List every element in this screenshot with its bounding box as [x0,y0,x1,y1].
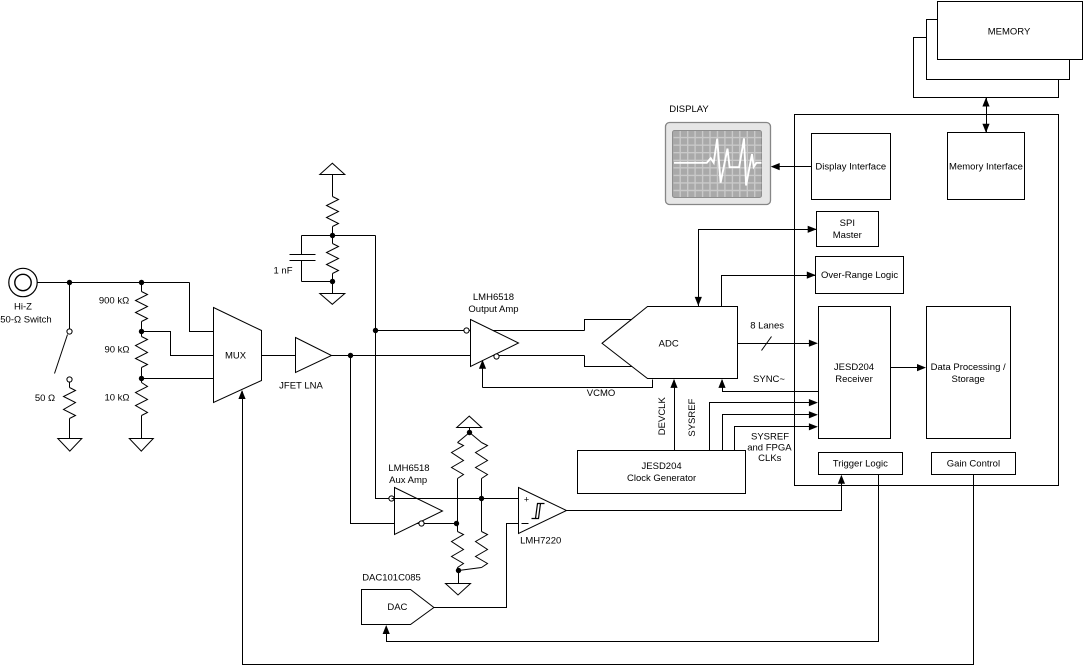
svg-text:LMH6518: LMH6518 [388,463,429,474]
supply arrow above bias resistor [320,163,345,196]
wire top diff line (net B to output amp input) [376,330,585,332]
svg-text:JFET LNA: JFET LNA [279,381,323,392]
label LMH6518 Aux Amp [388,463,429,486]
svg-text:Memory Interface: Memory Interface [949,161,1023,172]
node bias mid [330,233,335,238]
svg-text:LMH7220: LMH7220 [520,536,561,547]
svg-text:SYSREF: SYSREF [687,398,698,436]
block SPI Master [817,212,879,247]
wire DEVCLK/SYSREF to ADC [670,379,677,451]
label SYSREF [687,398,698,436]
wire comparator output to trigger logic [567,475,846,511]
svg-text:DISPLAY: DISPLAY [669,104,709,115]
switch SW1 bottom contact [67,377,72,382]
label Hi-Z 50-Ohm Switch [0,302,51,326]
label SYSREF and FPGA CLKs [747,431,792,464]
bus slash 8 Lanes [762,337,772,351]
wire 8 Lanes bus [738,340,818,347]
block Data Processing / Storage [927,307,1011,439]
svg-text:SPI: SPI [840,218,855,229]
mux MUX [214,308,262,403]
capacitor C1 1 nF [290,236,333,282]
block Trigger Logic [819,453,903,475]
svg-text:JESD204: JESD204 [834,362,874,373]
svg-text:DAC: DAC [387,602,407,613]
svg-text:MEMORY: MEMORY [988,27,1031,38]
svg-text:1 nF: 1 nF [273,265,292,276]
svg-text:Output Amp: Output Amp [468,304,518,315]
label 90 kOhm [104,344,129,355]
wire JFET output / bottom diff line [332,355,585,357]
resistor 900 kOhm [136,283,148,332]
wire FPGA clock 3 [735,423,818,450]
block MEMORY [938,2,1083,60]
wire memory to memory interface (bidirectional) [982,98,989,133]
switch SW1 blade [55,335,68,374]
supply arrow above threshold resistors [457,416,482,432]
svg-text:50-Ω Switch: 50-Ω Switch [0,315,51,326]
wire MUX output [262,355,296,357]
label DEVCLK [657,397,668,436]
comparator U3 LMH7220 [519,488,567,534]
label DAC101C085 [362,572,421,583]
resistor bias upper [327,197,339,236]
svg-text:SYSREF: SYSREF [751,431,789,442]
wire DAC output to comparator - [434,524,519,608]
wire vertical net A (JFET out down to aux amp in) [351,356,457,524]
wire trigger logic to DAC [383,475,879,642]
label LMH6518 Output Amp [468,292,518,315]
wire tap1 to MUX input 2 [142,332,214,356]
label 50 Ohm [35,393,55,404]
wire SPI to ADC [695,226,817,307]
wire diff bottom step [585,356,633,367]
block memory stack middle [927,20,1070,80]
wire FPGA clock 2 [723,411,818,450]
svg-text:JESD204: JESD204 [642,461,682,472]
display screen with waveform [666,123,771,205]
ground below 10 kOhm [129,439,153,452]
wire gain control to MUX [238,390,973,665]
label LMH7220 [520,536,561,547]
node net B tap to output amp [373,328,378,333]
svg-text:Gain Control: Gain Control [947,459,1000,470]
op-amp U1 LMH6518 Output Amp [471,320,519,367]
label JFET LNA [279,381,323,392]
node threshold bottom [456,568,461,584]
node threshold top [458,430,482,443]
label SYNC~ [753,374,785,385]
resistor 50 Ohm [64,382,76,439]
svg-text:and FPGA: and FPGA [747,443,792,454]
svg-text:DEVCLK: DEVCLK [657,397,668,436]
svg-text:Display Interface: Display Interface [815,161,886,172]
input connector J1 (Hi-Z / 50-ohm switch input) [9,268,37,296]
dac DAC101C085 [362,590,434,625]
pin output amp input bubble [464,328,469,333]
block Display Interface [812,134,891,200]
wire input rail [38,282,190,284]
resistor threshold upper-right [476,443,488,499]
wire aux amp to comparator + [392,498,519,500]
wire vertical net B (bias node down to aux amp +) [376,236,392,499]
label 10 kOhm [104,392,129,403]
label DISPLAY [669,104,709,115]
node threshold tap on lower line [454,521,459,526]
ground below bias network [320,294,345,305]
svg-text:CLKs: CLKs [758,453,781,464]
svg-text:Over-Range Logic: Over-Range Logic [821,270,898,281]
node bias bottom [330,279,335,284]
pin aux amp input bubble [389,496,394,501]
resistor threshold upper-left [452,443,464,524]
wire bias node [302,235,376,237]
svg-text:Hi-Z: Hi-Z [14,302,32,313]
node input junction B [139,280,144,285]
wire SYNC~ from receiver to ADC [718,379,818,392]
resistor bias lower [327,236,339,282]
wire FPGA clock 1 [710,399,818,451]
node threshold tap on + line [479,496,484,501]
svg-text:Receiver: Receiver [835,374,873,385]
block memory stack back [914,38,1059,98]
label 8 Lanes [750,321,784,332]
label 1 nF [273,265,292,276]
label VCMO [587,388,616,399]
node JFET output junction [348,353,353,358]
wire tap2 to MUX input 3 [142,378,214,380]
resistor 90 kOhm [136,332,148,379]
wire rail to MUX input 1 [190,283,214,332]
svg-text:LMH6518: LMH6518 [473,292,514,303]
svg-text:DAC101C085: DAC101C085 [362,572,421,583]
pin aux amp lower bubble [419,521,424,526]
op-amp U2 LMH6518 Aux Amp [395,488,443,535]
svg-text:MUX: MUX [225,350,247,361]
wire chainB continue [481,499,483,532]
adc ADC block [602,307,738,379]
svg-text:Clock Generator: Clock Generator [627,473,696,484]
svg-text:VCMO: VCMO [587,388,616,399]
node tap 900k/90k [139,329,144,334]
block Gain Control [932,453,1016,475]
svg-text:90 kΩ: 90 kΩ [104,344,129,355]
resistor threshold lower-left [452,524,464,571]
switch SW1 top contact [67,329,72,334]
amplifier JFET LNA [296,338,332,373]
block JESD204 Receiver [819,307,891,439]
resistor 10 kOhm [136,379,148,439]
wire VCMO feedback [479,360,653,388]
svg-text:Aux Amp: Aux Amp [389,475,427,486]
ground below threshold resistors [446,584,471,596]
wire display interface to display [771,163,812,170]
label 900 kOhm [99,295,129,306]
svg-text:Master: Master [833,230,862,241]
wire to ground [332,282,334,294]
svg-text:SYNC~: SYNC~ [753,374,785,385]
svg-text:900 kΩ: 900 kΩ [99,295,129,306]
node tap 90k/10k [139,376,144,381]
svg-text:Storage: Storage [952,374,985,385]
svg-text:Data Processing /: Data Processing / [931,362,1006,373]
block FPGA container [795,115,1059,486]
pin output amp lower bubble [494,354,499,359]
svg-text:Trigger Logic: Trigger Logic [833,459,888,470]
svg-text:ADC: ADC [659,338,679,349]
wire over-range to ADC [722,272,816,307]
block JESD204 Clock Generator [578,451,746,494]
svg-text:50 Ω: 50 Ω [35,393,55,404]
svg-text:+: + [524,494,529,504]
wire receiver to data processing [891,364,927,371]
resistor threshold lower-right [459,532,488,571]
ground below 50 Ohm [58,439,82,452]
svg-text:10 kΩ: 10 kΩ [104,392,129,403]
svg-text:8 Lanes: 8 Lanes [750,321,784,332]
node input junction A [67,280,72,285]
wire diff top step [585,320,634,331]
block Over-Range Logic [816,257,904,294]
block Memory Interface [948,133,1025,200]
switch SW1 wire [69,283,71,329]
